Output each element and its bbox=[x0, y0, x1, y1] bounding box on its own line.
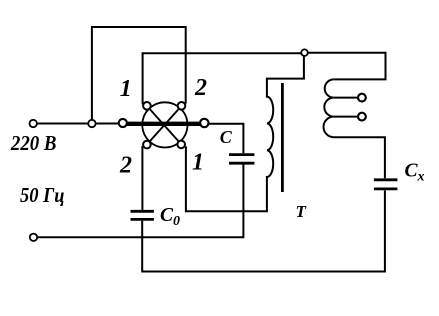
terminal 220V upper bbox=[30, 120, 37, 127]
switch S1 body circle bbox=[142, 102, 187, 147]
wire: switch output terminal to capacitor C bbox=[209, 124, 244, 154]
wire: C bottom along line B to lower terminal bbox=[34, 164, 244, 237]
wire: secondary tap 1 bbox=[334, 97, 357, 99]
capacitor C0 plates bbox=[131, 211, 154, 219]
switch S1 cross arm 1 bbox=[147, 106, 181, 144]
wire: secondary tap 2 bbox=[334, 116, 357, 118]
wire: junction J1 up and over to switch contact 2 (top-right) bbox=[92, 27, 186, 124]
capacitor C plates bbox=[229, 155, 254, 164]
svg-text:C0: C0 bbox=[160, 205, 180, 229]
switch bar left terminal bbox=[119, 119, 127, 127]
terminal 220V lower bbox=[30, 234, 37, 241]
secondary tap terminal 1 bbox=[358, 94, 366, 102]
capacitor Cx plates bbox=[374, 180, 398, 189]
svg-text:1: 1 bbox=[120, 76, 132, 102]
transformer T secondary winding bbox=[323, 79, 384, 178]
junction J1 bbox=[88, 120, 95, 127]
switch contact bottom-right (1) bbox=[177, 141, 185, 149]
wire: C0 top to switch contact 2 (bottom-left) bbox=[141, 146, 143, 210]
svg-text:C: C bbox=[220, 127, 233, 147]
wire: switch contact 1 (top-left) up and over to node J3 bbox=[143, 53, 305, 104]
switch contact top-right (2) bbox=[178, 102, 186, 110]
wire: Cx bottom along bottom to C0 bottom bbox=[142, 190, 385, 271]
switch contact top-left (1) bbox=[143, 102, 151, 110]
svg-text:220 В: 220 В bbox=[10, 131, 56, 155]
wire: main supply line from terminal to switch bar bbox=[33, 123, 123, 125]
switch S1 wiper bar bbox=[127, 122, 200, 126]
wire: J3 to secondary winding top bbox=[307, 53, 386, 80]
switch S1 cross arm 2 bbox=[147, 106, 182, 145]
transformer T core bbox=[281, 83, 284, 192]
transformer T primary winding with wire from J3 and wire to switch contact 1 (bottom-right) bbox=[186, 56, 304, 211]
svg-text:Cx: Cx bbox=[405, 160, 425, 184]
secondary tap terminal 2 bbox=[358, 113, 366, 121]
switch contact bottom-left (2) bbox=[143, 141, 151, 149]
svg-text:T: T bbox=[296, 202, 307, 221]
svg-text:50 Гц: 50 Гц bbox=[20, 183, 65, 207]
switch bar right terminal bbox=[200, 119, 208, 127]
svg-text:1: 1 bbox=[192, 149, 204, 175]
node J3 bbox=[301, 49, 308, 56]
svg-text:2: 2 bbox=[119, 152, 132, 178]
svg-text:2: 2 bbox=[194, 75, 207, 101]
